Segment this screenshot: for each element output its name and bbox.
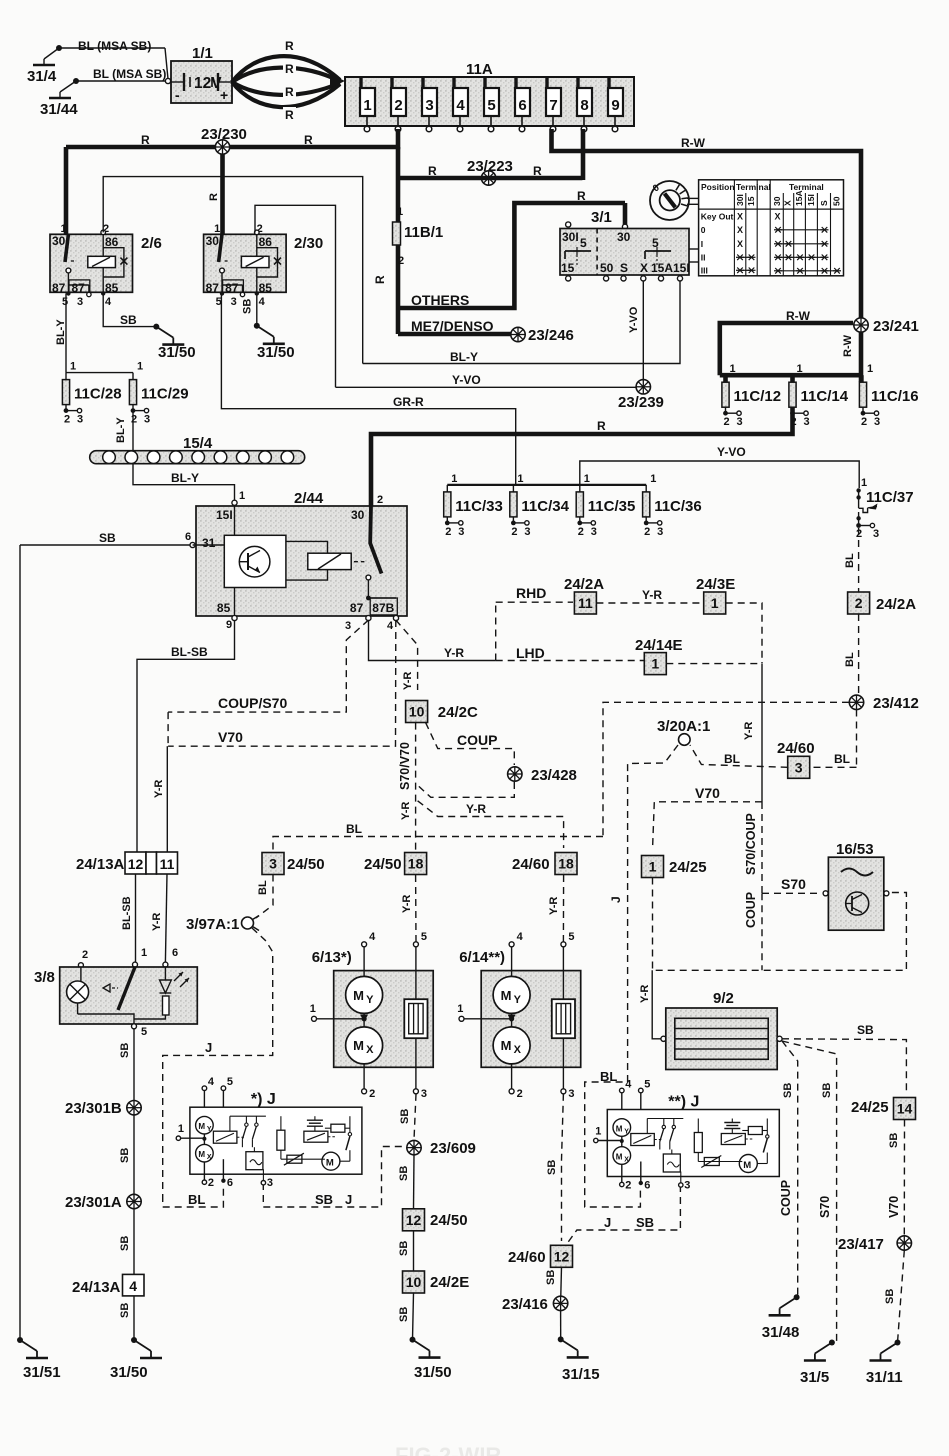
svg-text:R-W: R-W — [681, 136, 706, 150]
svg-text:11A: 11A — [466, 61, 493, 78]
wire RHD to corner — [726, 603, 762, 660]
svg-text:30: 30 — [351, 508, 365, 522]
junction 23/301A — [65, 1194, 141, 1211]
svg-text:BL-Y: BL-Y — [171, 471, 199, 485]
svg-text:2: 2 — [208, 1177, 214, 1189]
wire bus 11C/28-29 — [66, 372, 133, 374]
wire S70 to 16/53 — [762, 876, 822, 893]
svg-text:2: 2 — [377, 494, 383, 506]
wire COUP loop back — [419, 782, 515, 797]
wire GR-R relay 2/30 87 to 11C/34 — [221, 294, 515, 485]
svg-text:23/416: 23/416 — [502, 1296, 548, 1313]
connector 24/13A pin 4 — [72, 1274, 144, 1296]
svg-text:3: 3 — [684, 1180, 690, 1192]
svg-text:6/13*): 6/13*) — [312, 949, 352, 966]
svg-text:14: 14 — [897, 1101, 913, 1117]
svg-text:15A: 15A — [794, 190, 804, 206]
wire SB relay 2/6 to ground 31/50 — [103, 294, 156, 328]
svg-text:R: R — [373, 275, 387, 284]
svg-text:11: 11 — [160, 856, 175, 872]
svg-text:87: 87 — [72, 281, 86, 295]
svg-text:1: 1 — [137, 361, 143, 373]
ground 31/51 — [17, 1337, 61, 1381]
svg-text:3: 3 — [874, 416, 880, 428]
wire RHD row — [496, 585, 573, 602]
wire R to ignition 30 — [622, 203, 627, 229]
svg-text:SB: SB — [119, 1303, 131, 1318]
svg-text:3: 3 — [144, 414, 150, 426]
svg-text:2: 2 — [394, 97, 402, 114]
wire R-W fuse7 to 23/241 — [552, 129, 862, 318]
relay 2/44 — [185, 490, 407, 616]
svg-text:COUP: COUP — [744, 892, 758, 928]
svg-text:-: - — [175, 87, 180, 103]
svg-text:SB: SB — [398, 1166, 410, 1181]
svg-text:S70/V70: S70/V70 — [398, 742, 412, 790]
svg-text:BL-Y: BL-Y — [115, 417, 127, 443]
svg-text:4: 4 — [456, 97, 465, 114]
svg-text:23/239: 23/239 — [618, 394, 664, 411]
svg-text:M: M — [326, 1158, 334, 1169]
motor module 6/13 — [310, 931, 434, 1100]
connector 24/50 pin 18 — [364, 853, 427, 875]
svg-text:Key Out: Key Out — [701, 212, 734, 222]
fuse 11C/12 — [722, 363, 781, 428]
wire Y-VO ignition X to 23/239 — [628, 281, 643, 380]
wire SB left vertical to 31/51 — [19, 545, 21, 1340]
svg-text:15I: 15I — [806, 194, 816, 206]
svg-text:31/50: 31/50 — [158, 344, 196, 361]
bus 11C/12-16 — [720, 373, 861, 378]
svg-text:R: R — [597, 419, 606, 433]
svg-text:31/50: 31/50 — [110, 1364, 148, 1381]
svg-text:3: 3 — [77, 414, 83, 426]
wire S70/COUP vertical — [744, 802, 762, 893]
svg-text:11C/28: 11C/28 — [74, 386, 122, 403]
svg-text:COUP: COUP — [779, 1180, 793, 1216]
svg-text:FIG-2-WIR: FIG-2-WIR — [395, 1443, 501, 1456]
svg-text:SB: SB — [119, 1236, 131, 1251]
wire SB branch to 31/48 — [779, 1041, 798, 1297]
svg-text:5: 5 — [421, 931, 427, 943]
svg-text:SB: SB — [821, 1083, 833, 1098]
wire Y-R RHD — [596, 588, 703, 603]
wire BL 23/412 down — [856, 710, 858, 768]
svg-text:5: 5 — [568, 931, 574, 943]
svg-text:11C/36: 11C/36 — [654, 498, 702, 515]
svg-text:4: 4 — [387, 620, 394, 632]
svg-text:SB: SB — [315, 1192, 333, 1207]
svg-text:24/14E: 24/14E — [635, 637, 683, 654]
svg-text:23/609: 23/609 — [430, 1140, 476, 1157]
svg-text:SB: SB — [545, 1270, 557, 1285]
svg-text:31/15: 31/15 — [562, 1366, 600, 1383]
wire OTHERS — [398, 189, 625, 308]
svg-text:24/60: 24/60 — [508, 1249, 546, 1266]
svg-text:4: 4 — [369, 931, 376, 943]
svg-text:3: 3 — [657, 526, 663, 538]
wire Y-R 24/13A to 3/8 pin6 — [151, 874, 167, 962]
svg-text:X: X — [775, 212, 781, 222]
svg-text:3: 3 — [231, 296, 237, 308]
svg-text:24/50: 24/50 — [364, 856, 402, 873]
svg-text:Y-R: Y-R — [400, 802, 412, 820]
svg-text:Y-R: Y-R — [402, 672, 414, 690]
svg-text:R-W: R-W — [842, 334, 854, 357]
junction 23/241 — [854, 318, 919, 335]
svg-text:5: 5 — [652, 236, 659, 250]
wire BL 24/2A to 23/412 — [844, 614, 859, 695]
svg-text:J: J — [604, 1215, 611, 1230]
splice 3/97A:1 — [163, 916, 273, 1196]
svg-text:11C/14: 11C/14 — [801, 388, 849, 405]
svg-text:3: 3 — [591, 526, 597, 538]
svg-text:Y-R: Y-R — [466, 802, 486, 816]
svg-text:S70: S70 — [818, 1196, 832, 1218]
wire SB 3/8 down chain — [119, 1029, 134, 1340]
svg-text:23/417: 23/417 — [838, 1236, 884, 1253]
circuit breaker 11C/37 — [856, 477, 914, 540]
junction 23/416 — [502, 1296, 568, 1313]
svg-text:1: 1 — [141, 947, 147, 959]
svg-text:12: 12 — [554, 1248, 570, 1264]
svg-text:3: 3 — [345, 620, 351, 632]
svg-text:5: 5 — [580, 236, 587, 250]
wire dashed reconverge row — [653, 878, 907, 971]
connector 24/60 pin 3 — [777, 740, 815, 778]
svg-text:24/2C: 24/2C — [438, 704, 478, 721]
junction 23/230 — [201, 126, 247, 154]
svg-text:0: 0 — [701, 225, 706, 235]
connector 24/2E pin 10 — [403, 1271, 470, 1293]
svg-text:II: II — [701, 253, 706, 263]
junction 23/246 — [511, 327, 574, 344]
svg-text:BL (MSA SB): BL (MSA SB) — [78, 39, 151, 53]
wire SB 23/609 down — [398, 1155, 414, 1209]
connector 24/14E pin 1 — [635, 637, 683, 675]
ground 31/15 bottom — [558, 1336, 600, 1383]
svg-text:3: 3 — [77, 296, 83, 308]
svg-text:1: 1 — [70, 361, 76, 373]
fuse 11C/28 — [62, 361, 121, 426]
svg-text:12: 12 — [406, 1212, 422, 1228]
svg-text:15/4: 15/4 — [183, 435, 213, 452]
svg-text:Position: Position — [701, 182, 735, 192]
svg-text:2: 2 — [64, 414, 70, 426]
connector 24/25 pin 14 — [851, 1098, 916, 1120]
svg-text:24/2E: 24/2E — [430, 1274, 469, 1291]
svg-text:1: 1 — [397, 206, 403, 218]
svg-text:2: 2 — [398, 255, 404, 267]
ignition switch 3/1 — [560, 209, 699, 281]
wire SB 6/13 pin3 to 23/609 — [399, 1094, 416, 1140]
svg-text:R: R — [285, 108, 294, 122]
svg-text:8: 8 — [580, 97, 588, 114]
svg-text:BL-Y: BL-Y — [450, 350, 478, 364]
wire SB to 2/44 pin 31 — [20, 531, 190, 545]
wire 86 loop relay 2/30 to Y-VO line — [255, 205, 336, 387]
wire BL (MSA SB) lower — [76, 67, 171, 84]
pins 85 87 87B of 2/44 — [217, 580, 399, 632]
fuse 1 (11A) — [360, 77, 375, 132]
svg-text:BL: BL — [600, 1069, 617, 1084]
wire BL (MSA SB) upper — [59, 39, 168, 79]
svg-text:24/13A: 24/13A — [76, 856, 125, 873]
svg-text:S70: S70 — [781, 876, 806, 892]
svg-text:M: M — [353, 988, 364, 1003]
connector 24/50 pin 3 — [262, 853, 325, 875]
svg-text:1/1: 1/1 — [192, 45, 213, 62]
connector 24/2C pin 10 — [406, 701, 478, 723]
inset detail box **) J — [594, 1079, 780, 1192]
svg-text:X: X — [207, 1154, 212, 1161]
wire ME7/DENSO — [398, 318, 512, 334]
wire J dashed down left of 3/20A:1 — [585, 775, 641, 1207]
battery 1/1 — [171, 45, 232, 103]
svg-text:Y-R: Y-R — [401, 895, 413, 913]
svg-text:5: 5 — [141, 1026, 147, 1038]
svg-text:X: X — [737, 239, 743, 249]
wire Y-R main vertical right — [743, 664, 762, 802]
connector 24/25 pin 1 — [642, 856, 707, 878]
svg-text:III: III — [701, 266, 708, 276]
svg-text:BL-SB: BL-SB — [121, 896, 133, 930]
svg-text:BL-Y: BL-Y — [55, 319, 67, 345]
ground 31/4 — [27, 45, 62, 85]
svg-text:50: 50 — [832, 196, 842, 206]
connector 24/13A pins 12 11 — [76, 852, 178, 874]
svg-text:24/60: 24/60 — [512, 856, 550, 873]
svg-text:Y-VO: Y-VO — [452, 373, 481, 387]
ground 31/44 — [40, 78, 79, 118]
svg-text:15: 15 — [746, 196, 756, 206]
svg-text:24/50: 24/50 — [430, 1212, 468, 1229]
svg-text:10: 10 — [406, 1274, 422, 1290]
svg-text:2: 2 — [578, 526, 584, 538]
svg-text:23/412: 23/412 — [873, 695, 919, 712]
connector 24/60 pin 12 — [508, 1245, 573, 1267]
wire R fuse2 down to 23/223 line — [373, 147, 398, 284]
wire Y-R 24/60-18 to 6/14 pin5 — [548, 875, 564, 942]
svg-text:SB: SB — [546, 1160, 558, 1175]
svg-text:24/2A: 24/2A — [876, 596, 916, 613]
wire V70 branch to 24/25 — [653, 785, 763, 850]
svg-text:9/2: 9/2 — [713, 990, 734, 1007]
svg-text:1: 1 — [451, 473, 457, 485]
svg-text:85: 85 — [217, 601, 231, 615]
svg-text:2: 2 — [861, 416, 867, 428]
fuse 11C/36 — [643, 473, 702, 538]
svg-text:BL: BL — [834, 752, 850, 766]
svg-text:3: 3 — [568, 1088, 574, 1100]
svg-text:10: 10 — [409, 704, 425, 720]
svg-text:X: X — [624, 1157, 629, 1164]
wire R 23/223 horizontal — [398, 164, 582, 178]
svg-text:5: 5 — [487, 97, 495, 114]
wire Y-VO line to 23/239 — [336, 373, 637, 387]
svg-text:Y-VO: Y-VO — [628, 306, 640, 333]
svg-text:BL: BL — [188, 1192, 205, 1207]
svg-text:1: 1 — [595, 1126, 601, 1138]
svg-text:1: 1 — [457, 1003, 463, 1015]
svg-text:1: 1 — [711, 595, 719, 611]
wire R-W loop to 11C/12 — [720, 309, 853, 375]
svg-text:X: X — [737, 212, 743, 222]
svg-text:87: 87 — [206, 281, 220, 295]
svg-text:M: M — [616, 1153, 623, 1162]
wire Y-R dashed 2/44 pin 4 to 24/2C — [396, 620, 418, 690]
wire SB 24/50-12 down — [398, 1231, 414, 1271]
svg-text:X: X — [514, 1044, 522, 1056]
svg-text:24/2A: 24/2A — [564, 576, 604, 593]
wire S70/V70 vertical 24/2C to 24/50 — [398, 723, 416, 852]
svg-text:30: 30 — [772, 196, 782, 206]
svg-text:87: 87 — [52, 281, 66, 295]
svg-text:16/53: 16/53 — [836, 841, 874, 858]
svg-text:SB: SB — [636, 1215, 654, 1230]
svg-text:5: 5 — [227, 1076, 233, 1088]
svg-text:1: 1 — [730, 363, 736, 375]
svg-text:23/428: 23/428 — [531, 767, 577, 784]
svg-text:3: 3 — [524, 526, 530, 538]
svg-text:4: 4 — [129, 1278, 137, 1294]
svg-text:V70: V70 — [695, 785, 720, 801]
svg-text:31/48: 31/48 — [762, 1324, 800, 1341]
svg-text:R: R — [304, 133, 313, 147]
svg-text:M: M — [353, 1038, 364, 1053]
ground 31/50 bottom middle — [410, 1337, 452, 1381]
svg-text:X: X — [640, 261, 648, 275]
svg-text:BL: BL — [257, 880, 269, 895]
svg-text:SB: SB — [120, 313, 137, 327]
svg-text:2: 2 — [369, 1088, 375, 1100]
svg-text:3: 3 — [458, 526, 464, 538]
wire Y-VO to 11C/37 — [580, 445, 859, 488]
svg-text:6: 6 — [644, 1180, 650, 1192]
wire BL-Y relay 2/6 87 to 11C/28 — [55, 294, 68, 373]
svg-text:1: 1 — [239, 490, 245, 502]
svg-text:11C/33: 11C/33 — [455, 498, 503, 515]
svg-text:31/51: 31/51 — [23, 1364, 61, 1381]
svg-text:S: S — [819, 200, 829, 206]
svg-text:3: 3 — [803, 416, 809, 428]
svg-text:Y-R: Y-R — [444, 646, 464, 660]
svg-text:2: 2 — [82, 949, 88, 961]
wire BL-SB 2/44 pin9 to 24/13A — [137, 621, 235, 853]
svg-text:5: 5 — [644, 1079, 650, 1091]
relay 2/30 — [204, 223, 324, 308]
svg-text:2/6: 2/6 — [141, 235, 162, 252]
wire cable bundle R x4 — [232, 38, 345, 122]
svg-text:Y: Y — [624, 1129, 629, 1136]
svg-text:86: 86 — [105, 235, 119, 249]
svg-text:30: 30 — [617, 230, 631, 244]
svg-text:R: R — [533, 164, 542, 178]
fuse 11C/33 — [444, 473, 503, 538]
wire SB 23/416 to ground — [560, 1311, 562, 1339]
svg-text:1: 1 — [363, 97, 371, 114]
svg-text:87: 87 — [225, 281, 239, 295]
svg-text:Y: Y — [207, 1126, 212, 1133]
svg-text:M: M — [501, 988, 512, 1003]
svg-text:86: 86 — [259, 235, 273, 249]
svg-text:3: 3 — [269, 856, 277, 872]
svg-text:4: 4 — [208, 1076, 215, 1088]
svg-text:*) J: *) J — [251, 1091, 276, 1108]
svg-text:31/44: 31/44 — [40, 101, 78, 118]
wire BL inset enclosure — [163, 1184, 224, 1207]
svg-text:2: 2 — [855, 595, 863, 611]
svg-text:S: S — [620, 261, 628, 275]
connector 24/60 pin 18 — [512, 853, 577, 875]
wire J SB inset to 24/60-12 — [566, 1185, 680, 1245]
svg-text:9: 9 — [611, 97, 619, 114]
junction 23/301B — [65, 1100, 141, 1117]
svg-text:3/1: 3/1 — [591, 209, 612, 226]
wire LHD row — [496, 645, 644, 661]
svg-text:R: R — [141, 133, 150, 147]
svg-text:X: X — [737, 225, 743, 235]
svg-text:30: 30 — [52, 234, 66, 248]
svg-text:SB: SB — [119, 1148, 131, 1163]
svg-text:R-W: R-W — [786, 309, 811, 323]
svg-text:7: 7 — [549, 97, 557, 114]
svg-text:24/60: 24/60 — [777, 740, 815, 757]
svg-text:BL (MSA SB): BL (MSA SB) — [93, 67, 166, 81]
svg-text:31/5: 31/5 — [800, 1369, 829, 1386]
svg-text:SB: SB — [99, 531, 116, 545]
svg-text:SB: SB — [884, 1289, 896, 1304]
svg-text:1: 1 — [861, 477, 867, 489]
ground 31/48 — [762, 1294, 800, 1341]
relay 2/6 — [50, 223, 162, 308]
svg-text:Y-R: Y-R — [548, 897, 560, 915]
svg-text:3/20A:1: 3/20A:1 — [657, 718, 710, 735]
svg-text:24/25: 24/25 — [669, 859, 707, 876]
wire SB 24/60-12 down — [545, 1267, 562, 1296]
fusebox 11A — [345, 61, 634, 126]
connector 24/2A pin 2 — [848, 592, 917, 614]
heater element 9/2 — [661, 990, 782, 1070]
fuse 11C/35 — [576, 473, 635, 538]
svg-text:23/301A: 23/301A — [65, 1194, 122, 1211]
junction 23/417 — [838, 1236, 912, 1253]
svg-text:85: 85 — [105, 281, 119, 295]
ground 31/50 second — [254, 323, 295, 361]
svg-text:11C/12: 11C/12 — [734, 388, 782, 405]
svg-text:31/4: 31/4 — [27, 68, 57, 85]
svg-text:Y-R: Y-R — [743, 722, 755, 740]
junction 23/428 — [508, 767, 577, 784]
svg-text:31: 31 — [202, 536, 216, 550]
fuse 11C/34 — [510, 473, 570, 538]
svg-text:J: J — [345, 1192, 352, 1207]
svg-text:V70: V70 — [218, 729, 243, 745]
svg-text:50: 50 — [600, 261, 614, 275]
svg-text:2: 2 — [625, 1180, 631, 1192]
bus 11C/33-36 — [447, 484, 646, 486]
wire COUP vertical down — [744, 892, 762, 970]
svg-text:R: R — [285, 39, 294, 53]
svg-text:SB: SB — [242, 299, 254, 314]
svg-text:6: 6 — [185, 531, 191, 543]
svg-text:COUP: COUP — [457, 732, 497, 748]
svg-text:18: 18 — [558, 856, 574, 872]
svg-text:M: M — [501, 1038, 512, 1053]
svg-text:24/13A: 24/13A — [72, 1279, 121, 1296]
svg-text:Y-R: Y-R — [151, 913, 163, 931]
svg-text:6/14**): 6/14**) — [459, 949, 505, 966]
